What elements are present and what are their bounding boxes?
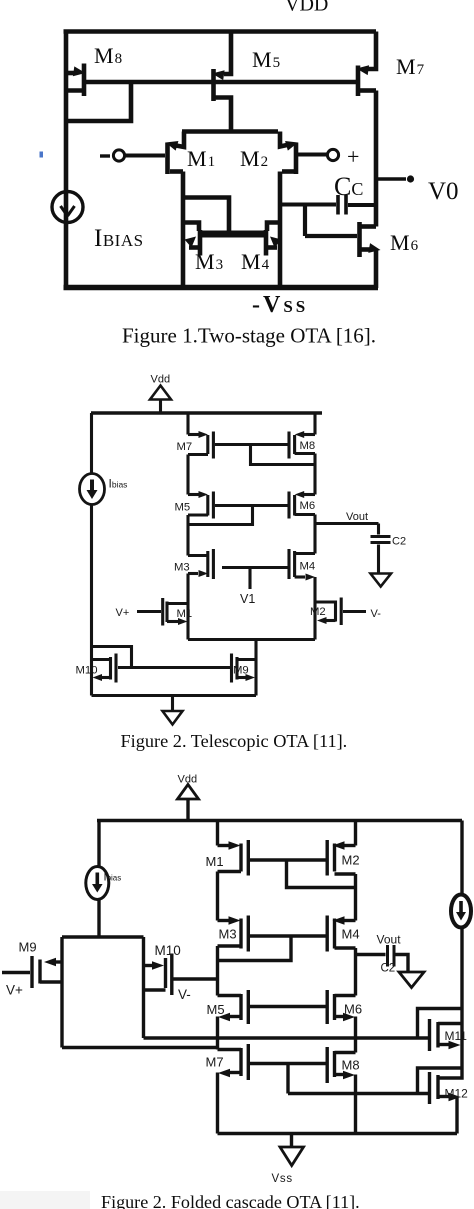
wire V0 tap <box>378 177 406 180</box>
wire M10 diode link <box>92 647 132 668</box>
arrow M4 <box>270 237 282 248</box>
svg-text:M9: M9 <box>19 940 37 955</box>
wire M3 M4 gate bus <box>250 934 326 937</box>
svg-text:M5: M5 <box>175 502 191 514</box>
svg-text:Vout: Vout <box>346 511 368 523</box>
capacitor C2 <box>388 945 409 972</box>
arrow M10 <box>152 961 164 970</box>
arrow M2 <box>285 138 299 151</box>
transistor M1 <box>137 598 188 626</box>
wire center column left <box>216 821 219 1134</box>
arrow M2 <box>317 617 327 624</box>
svg-text:V-: V- <box>371 608 382 620</box>
blue artifact mark <box>40 152 44 158</box>
wire center column right <box>354 821 357 1134</box>
current source Ibias <box>52 192 83 223</box>
wire M6 gate link <box>305 205 357 237</box>
svg-text:M11: M11 <box>445 1029 468 1043</box>
wire M1 drain column <box>181 172 186 289</box>
wire M10 outer column <box>142 937 145 1038</box>
wire M10 gate lead V- <box>174 977 218 980</box>
transistor M4 <box>327 916 355 952</box>
wire cascode column right <box>313 413 316 640</box>
ground Vss symbol <box>280 1147 304 1166</box>
arrowheads figure 2 <box>87 431 327 681</box>
transistor M9 <box>232 654 257 683</box>
svg-text:VDD: VDD <box>285 0 328 16</box>
arrow M5 <box>211 69 224 81</box>
minus sign <box>100 154 110 157</box>
arrow inside Ibias <box>87 490 98 499</box>
arrow M10 <box>93 674 103 681</box>
wire M8 diode loop <box>66 82 131 121</box>
transistor M3 <box>189 230 200 256</box>
arrow M11 <box>449 1041 461 1050</box>
transistor M9 <box>2 956 62 988</box>
wire M6 source <box>374 250 379 288</box>
arrow M9 <box>44 958 56 967</box>
svg-text:V+: V+ <box>6 983 23 998</box>
transistor M8 <box>327 1047 355 1083</box>
svg-text:V0: V0 <box>428 178 459 205</box>
svg-text:Ibias: Ibias <box>109 477 128 491</box>
capacitor C2 <box>371 524 391 574</box>
arrow M12 <box>449 1093 461 1102</box>
wire M7 drain / output column <box>374 91 379 227</box>
svg-text:Vss: Vss <box>272 1173 293 1185</box>
wire bias to pair <box>97 900 100 938</box>
wire ground stub <box>171 696 174 712</box>
wire Vout <box>315 522 379 525</box>
svg-text:C2: C2 <box>392 536 406 548</box>
arrow M4 <box>306 574 316 581</box>
svg-text:Ibias: Ibias <box>104 872 122 884</box>
node V1 stub <box>248 568 251 590</box>
arrow M3 <box>199 570 209 577</box>
transistor M1 <box>218 840 249 876</box>
wire M10 drain to M11 gate <box>144 1036 429 1039</box>
transistor M12 <box>430 1068 463 1104</box>
arrow inside source right <box>456 912 466 921</box>
wire M5 M6 bias drop <box>189 506 253 525</box>
wire M11 source to M12 gate <box>418 1068 463 1094</box>
wire tail drop to M9 <box>254 640 257 696</box>
svg-text:V1: V1 <box>240 592 255 606</box>
svg-text:M12: M12 <box>445 1087 469 1101</box>
wire M5 M6 gate bus <box>250 1005 326 1008</box>
wire VDD top rail <box>64 29 377 34</box>
scan smudge <box>0 1191 90 1209</box>
arrow M7 <box>356 64 369 76</box>
svg-text:V+: V+ <box>116 607 130 619</box>
arrow M1 <box>178 618 188 625</box>
wire gate bus M8-M5-M7 <box>84 80 357 85</box>
wire bottom rail <box>218 1132 458 1135</box>
arrow M3 <box>229 916 241 925</box>
svg-text:M3: M3 <box>174 562 190 574</box>
wire M1 M2 bias drop <box>287 860 356 888</box>
svg-text:M2: M2 <box>342 853 360 868</box>
transistor M8 <box>66 64 84 97</box>
transistor M5 <box>214 32 232 132</box>
svg-text:V-: V- <box>178 987 191 1002</box>
arrow M3 <box>185 237 197 248</box>
wire elbow to M4 <box>267 223 280 232</box>
transistor M5 <box>218 990 249 1024</box>
svg-text:M10: M10 <box>155 943 181 958</box>
wire M7 M8 gate bus <box>250 1062 326 1065</box>
arrow M5 <box>218 1013 230 1022</box>
svg-text:M6: M6 <box>300 500 316 512</box>
svg-text:Vdd: Vdd <box>151 374 171 386</box>
wire right rail lower <box>460 928 463 1069</box>
terminal dot V0 <box>407 175 414 182</box>
wire top rail <box>91 411 322 414</box>
wire M3 M4 bias drop <box>218 936 292 961</box>
svg-text:Figure 2. Telescopic OTA [11].: Figure 2. Telescopic OTA [11]. <box>121 731 348 751</box>
svg-text:Vout: Vout <box>377 933 402 947</box>
transistor M3 <box>218 916 249 952</box>
svg-text:+: + <box>347 144 359 169</box>
wire M9 outer column <box>60 937 63 1048</box>
transistor M7 <box>358 32 376 97</box>
wire input pair top bus <box>62 935 144 938</box>
arrow M8 <box>295 431 305 438</box>
transistor M3 <box>188 549 213 579</box>
capacitor Cc <box>280 195 376 215</box>
wire bottom bus <box>92 694 257 697</box>
wire M3 gate tie box <box>184 198 229 234</box>
svg-text:Vdd: Vdd <box>178 774 198 786</box>
svg-text:M7: M7 <box>177 441 193 453</box>
svg-text:M7: M7 <box>206 1055 224 1070</box>
arrow M1 <box>229 841 241 850</box>
input terminal circle plus <box>327 149 338 160</box>
current source Ibias <box>86 867 109 900</box>
transistor M4 <box>289 549 315 579</box>
wire right rail upper <box>460 821 463 895</box>
svg-text:M5: M5 <box>207 1002 225 1017</box>
wire M7 M8 gate bus <box>215 443 288 446</box>
arrow M4 <box>333 916 345 925</box>
wire M10 M9 gate bus <box>118 666 232 669</box>
transistor M2 <box>280 132 296 175</box>
wire left rail <box>64 30 69 289</box>
wire cascode column left <box>186 413 189 640</box>
transistor M2 <box>315 598 366 626</box>
arrow M6 <box>368 243 381 255</box>
arrow M7 <box>199 431 209 438</box>
wire M3 M4 gate bus <box>222 566 288 569</box>
svg-text:Figure 1.Two-stage OTA [16].: Figure 1.Two-stage OTA [16]. <box>122 324 376 348</box>
svg-text:M1: M1 <box>206 854 224 869</box>
svg-text:M6: M6 <box>344 1002 362 1017</box>
transistor M7 <box>188 432 213 459</box>
svg-text:M9: M9 <box>233 665 249 677</box>
arrowheads figure 3 <box>44 841 466 1101</box>
arrow M2 <box>333 841 345 850</box>
wire top rail <box>97 819 462 822</box>
wire bottom -VSS rail <box>64 285 379 290</box>
svg-text:Figure 2. Folded cascade OTA [: Figure 2. Folded cascade OTA [11]. <box>101 1192 360 1209</box>
transistor M10 <box>92 654 117 683</box>
power Vdd symbol <box>178 785 199 821</box>
transistor M4 <box>266 230 277 256</box>
arrow M8 <box>343 1071 355 1080</box>
wire M12 source drop <box>455 1097 458 1134</box>
svg-text:M3: M3 <box>219 927 237 942</box>
ground below C2 <box>371 574 392 587</box>
arrow M9 <box>246 674 256 681</box>
wire M1 input lead <box>125 154 165 158</box>
wire tail bus <box>188 638 315 641</box>
arrowheads figure 1 <box>73 64 414 255</box>
svg-text:C2: C2 <box>381 963 396 975</box>
wire M9 drain to fold node <box>62 1046 218 1049</box>
transistor M6 <box>289 492 315 519</box>
wire M11 diode box <box>418 1009 463 1037</box>
transistor M8 <box>289 432 315 459</box>
transistor M11 <box>430 1019 463 1051</box>
svg-text:M4: M4 <box>300 561 316 573</box>
wire M5 M6 gate bus <box>215 504 288 507</box>
ground below C2 <box>399 972 424 988</box>
wire left bias drop <box>97 821 100 867</box>
wire Vss stub <box>290 1134 293 1148</box>
transistor M10 <box>144 954 172 996</box>
transistor M1 <box>168 132 185 175</box>
wire M7 M8 bias drop to M12 gate <box>288 1064 428 1094</box>
input terminal circle minus <box>113 150 124 161</box>
current source Ibias <box>80 474 105 505</box>
wire M2 drain column <box>278 172 283 289</box>
svg-text:M8: M8 <box>342 1058 360 1073</box>
wire diff pair top <box>182 129 278 134</box>
arrow M6 <box>295 491 305 498</box>
svg-text:M10: M10 <box>76 665 98 677</box>
svg-text:M4: M4 <box>342 927 360 942</box>
wire elbow to M3 <box>183 223 199 232</box>
arrow inside Ibias left <box>92 884 103 893</box>
current source right <box>451 895 471 928</box>
transistor M6 <box>327 990 355 1024</box>
arrow M8 <box>73 66 86 78</box>
wire left bias rail lower <box>90 505 93 696</box>
svg-text:M8: M8 <box>300 440 316 452</box>
transistor M5 <box>188 492 213 519</box>
arrow M7 <box>218 1069 230 1078</box>
wire M7 M8 bias drop <box>251 445 316 465</box>
svg-text:M1: M1 <box>177 608 193 620</box>
arrow M5 <box>199 491 209 498</box>
svg-text:M2: M2 <box>310 606 326 618</box>
power VDD symbol <box>150 386 171 414</box>
transistor M6 <box>360 222 377 257</box>
wire left bias rail upper <box>90 413 93 474</box>
wire M3 M4 drain bus <box>200 231 266 238</box>
transistor M7 <box>218 1044 249 1080</box>
wire M1 M2 gate bus <box>250 858 326 861</box>
arrow M6 <box>343 1013 355 1022</box>
arrow M1 <box>164 138 178 151</box>
wire M2 input lead <box>298 153 328 157</box>
wire Vout lead <box>356 953 386 956</box>
ground symbol <box>163 711 183 725</box>
transistor M2 <box>327 840 355 876</box>
